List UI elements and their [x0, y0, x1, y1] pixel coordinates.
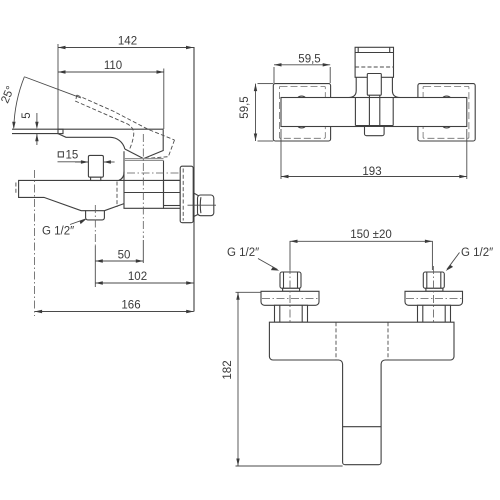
svg-text:142: 142 [118, 36, 137, 48]
svg-text:182: 182 [222, 360, 234, 379]
svg-text:15: 15 [66, 150, 79, 162]
svg-text:59,5: 59,5 [239, 96, 251, 118]
svg-text:G 1/2″: G 1/2″ [42, 226, 74, 238]
svg-text:G 1/2″: G 1/2″ [461, 247, 493, 259]
svg-text:25°: 25° [0, 84, 17, 105]
svg-text:166: 166 [121, 300, 140, 312]
svg-text:5: 5 [21, 112, 33, 118]
svg-text:150 ±20: 150 ±20 [350, 229, 392, 241]
svg-text:102: 102 [128, 271, 147, 283]
svg-text:G 1/2″: G 1/2″ [227, 247, 259, 259]
svg-text:193: 193 [362, 166, 381, 178]
svg-text:59,5: 59,5 [298, 54, 320, 66]
svg-text:50: 50 [118, 249, 131, 261]
svg-text:110: 110 [104, 60, 122, 72]
